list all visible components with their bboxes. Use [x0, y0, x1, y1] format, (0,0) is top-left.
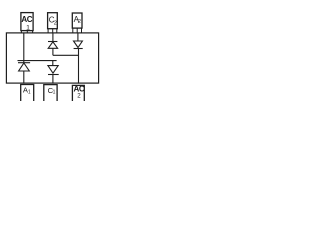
- diode D4 (AC1 to C1): [48, 61, 59, 84]
- wire AC1 box side extensions: [21, 31, 32, 33]
- terminal box A2: [72, 13, 82, 28]
- terminal box A1: [21, 85, 34, 102]
- diode D3 (A1 to AC1): [18, 61, 30, 84]
- wire A2 box side extensions: [73, 28, 82, 33]
- terminal box C1: [44, 85, 57, 101]
- svg-text:2: 2: [54, 21, 57, 27]
- svg-text:1: 1: [28, 90, 31, 96]
- svg-text:AC: AC: [21, 15, 32, 24]
- module outline rectangle: [6, 33, 98, 83]
- diode D1 (AC2 to C2): [48, 33, 58, 55]
- svg-text:1: 1: [26, 24, 30, 31]
- svg-text:2: 2: [78, 19, 81, 25]
- terminal box AC1: [21, 13, 33, 31]
- wire C2 box side extensions: [48, 29, 57, 33]
- wire W2 horizontal above D3/D4: [18, 60, 57, 62]
- wire vertical from top edge (AC1 leg midpoint): [23, 33, 25, 61]
- diode D2 (A2 to AC2): [74, 33, 83, 83]
- wire W1 from D1 anode to AC2 line: [53, 54, 79, 56]
- wire C2 lead: [52, 29, 54, 34]
- terminal box AC2: [72, 85, 84, 101]
- wire AC1 lead: [26, 31, 28, 34]
- svg-text:1: 1: [53, 90, 56, 96]
- svg-text:2: 2: [77, 93, 81, 100]
- wire A2 lead: [76, 28, 78, 33]
- terminal box C2: [48, 13, 58, 29]
